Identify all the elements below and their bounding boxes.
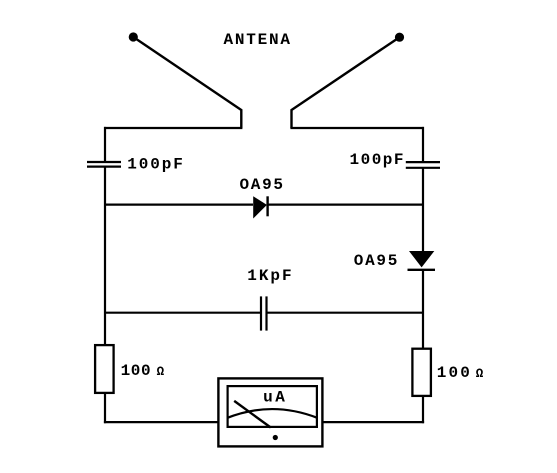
antenna left diagonal wire <box>133 37 241 128</box>
wire left rail lower segment <box>104 393 106 423</box>
antenna left terminal dot <box>129 32 138 41</box>
svg-text:100pF: 100pF <box>350 151 404 169</box>
meter M1 inner window <box>228 386 317 427</box>
label 100 ohm left <box>121 362 165 380</box>
label 100pF left <box>127 156 183 174</box>
capacitor C3 1KpF plates <box>261 296 267 330</box>
svg-text:Ω: Ω <box>476 367 484 381</box>
svg-text:OA95: OA95 <box>240 176 284 194</box>
label uA <box>263 389 285 407</box>
meter needle <box>234 401 271 428</box>
wire right rail upper segment <box>422 127 424 162</box>
resistor R1 100 ohm left <box>95 345 114 393</box>
capacitor C1 100pF left plates <box>87 162 121 167</box>
wire bottom-right horizontal <box>324 421 425 423</box>
antenna right diagonal wire <box>292 37 400 128</box>
svg-text:100: 100 <box>437 364 470 382</box>
diode D1 OA95 horizontal <box>253 196 267 218</box>
meter M1 uA outer case <box>218 378 322 446</box>
diode D2 OA95 vertical <box>408 251 436 270</box>
wire left rail upper segment <box>104 127 106 162</box>
label ANTENA <box>224 31 291 49</box>
label OA95 top <box>240 176 284 194</box>
svg-text:OA95: OA95 <box>354 252 398 270</box>
label 100pF right <box>350 151 404 169</box>
label 100 ohm right <box>437 364 484 382</box>
antenna right terminal dot <box>395 33 404 42</box>
wire middle horizontal (diode row) <box>105 204 423 206</box>
wire top-left horizontal <box>104 127 242 129</box>
wire lower horizontal (capacitor row) <box>105 312 423 314</box>
wire top-right horizontal <box>290 127 424 129</box>
wire right rail lower segment <box>422 396 424 423</box>
resistor R2 100 ohm right <box>412 349 431 396</box>
meter pivot dot <box>273 435 278 440</box>
svg-text:Ω: Ω <box>157 365 165 379</box>
svg-text:100: 100 <box>121 362 151 380</box>
meter scale arc <box>227 409 317 418</box>
svg-text:100pF: 100pF <box>127 156 183 174</box>
wire bottom-left horizontal <box>104 421 218 423</box>
wire right rail segment diode to resistor <box>422 271 424 349</box>
wire left rail middle segment <box>104 167 106 345</box>
svg-text:1KpF: 1KpF <box>247 267 291 285</box>
wire right rail segment cap to diode <box>422 168 424 252</box>
capacitor C2 100pF right plates <box>406 162 440 168</box>
label 1KpF <box>247 267 291 285</box>
label OA95 right <box>354 252 398 270</box>
